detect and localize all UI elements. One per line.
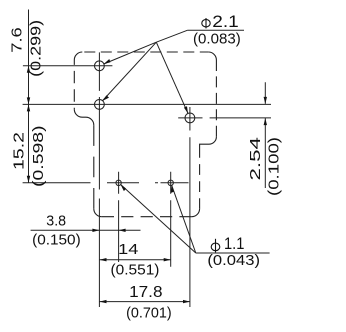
arrow down to 2.54 top line [264, 97, 267, 104]
outline outer left edge [73, 60, 75, 109]
hole H1 (phi 2.1 top-left) [95, 61, 105, 71]
leader arrow to H2 [102, 42, 156, 101]
H3 horizontal crosshair [178, 117, 202, 119]
outline right edge [215, 60, 217, 137]
arrow down at 7.6 bottom [27, 97, 30, 104]
hole H4 (phi 1.1 bottom-left) [116, 180, 121, 185]
svg-text:(0.299): (0.299) [28, 20, 45, 77]
svg-text:(0.043): (0.043) [207, 252, 260, 269]
right dimension 2.54 [264, 82, 266, 188]
svg-text:(0.150): (0.150) [32, 231, 81, 248]
leader arrow to H1 [104, 42, 157, 64]
svg-text:14: 14 [118, 241, 138, 258]
arrow up at 15.2 top [27, 104, 30, 111]
svg-text:2.1: 2.1 [212, 13, 239, 31]
outline bottom-right corner [192, 209, 200, 217]
vertical centerline through H3 extended down [189, 107, 191, 307]
extension line through H2 (long, to 2.54 dim) [23, 103, 271, 105]
outline top-right corner [208, 52, 216, 60]
svg-text:15.2: 15.2 [10, 132, 27, 170]
arrow right at 3.8 left [92, 229, 99, 232]
outline inner right edge [199, 147, 201, 209]
arrow left at 3.8 right [119, 229, 126, 232]
svg-text:17.8: 17.8 [129, 284, 163, 301]
left dimension line (7.6 / 15.2) [28, 10, 30, 183]
outline bottom edge [102, 216, 192, 218]
arrow right at 14 right [164, 258, 171, 261]
arrow left at 17.8 left [100, 300, 107, 303]
H4 vertical centerline [118, 172, 120, 262]
leader arrow to H5 [172, 185, 196, 253]
label phi 2.1 : phi symbol [202, 20, 210, 27]
dimension 14 line [100, 259, 171, 261]
hole H3 (phi 2.1 right) [185, 113, 195, 123]
arrow down at 15.2 bottom [27, 176, 30, 183]
phi 2.1 leader to vertex [156, 30, 187, 42]
label phi 1.1 : phi symbol [211, 243, 220, 251]
arrow up at 7.6 top [27, 66, 30, 73]
H3 extension to 2.54 dim [210, 117, 271, 119]
outline right step curve [200, 137, 217, 147]
outline inner left edge [93, 125, 95, 209]
arrow left at 14 left [100, 258, 107, 261]
arrow up to 2.54 bottom line [264, 118, 267, 125]
svg-text:2.54: 2.54 [247, 137, 264, 181]
svg-text:(0.701): (0.701) [126, 304, 172, 321]
extension line through H1 (7.6 level) [23, 65, 113, 67]
vertical centerline through H1/H2 extended down [98, 52, 100, 307]
outline left step curves [74, 109, 94, 125]
dimension 3.8 line [31, 229, 141, 231]
phi 1.1 underline [196, 252, 270, 254]
hole H5 (phi 1.1 bottom-right) [168, 180, 173, 185]
svg-text:(0.100): (0.100) [266, 137, 283, 196]
arrow right at 17.8 right [183, 300, 190, 303]
svg-text:3.8: 3.8 [46, 212, 66, 229]
H5 vertical centerline [170, 172, 172, 267]
relay body dashed outline : top edge [82, 51, 208, 53]
svg-text:(0.551): (0.551) [111, 262, 160, 279]
bottom holes horizontal centerline [23, 182, 189, 184]
outline bottom-left corner [94, 209, 102, 217]
outline top-left corner [74, 52, 82, 60]
svg-text:(0.083): (0.083) [193, 31, 241, 48]
svg-text:(0.598): (0.598) [30, 125, 47, 187]
phi 2.1 underline [188, 29, 244, 31]
dimension 17.8 line [100, 301, 191, 303]
hole H2 (phi 2.1 mid-left) [95, 100, 105, 110]
svg-text:1.1: 1.1 [224, 234, 244, 253]
leader arrow to H4 [121, 184, 196, 253]
svg-text:7.6: 7.6 [9, 27, 26, 53]
leader arrow to H3 [156, 42, 188, 113]
